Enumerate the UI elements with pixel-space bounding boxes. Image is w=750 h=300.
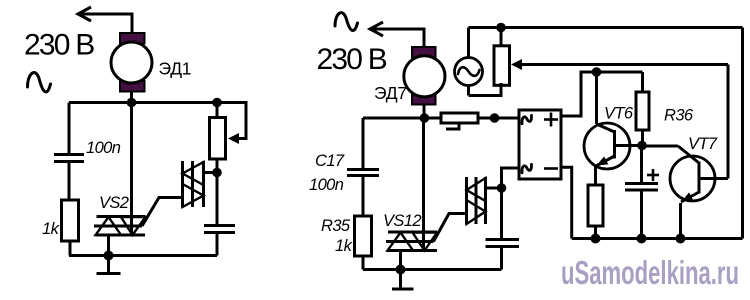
svg-text:VS12: VS12 [383,212,421,230]
svg-text:R36: R36 [664,107,694,125]
svg-text:uSamodelkina.ru: uSamodelkina.ru [561,254,739,291]
svg-text:C17: C17 [315,152,345,170]
svg-text:ЭД1: ЭД1 [159,59,192,79]
svg-text:100n: 100n [309,176,344,194]
svg-text:VT6: VT6 [604,105,634,123]
svg-text:230 В: 230 В [24,29,94,62]
svg-text:1k: 1k [42,220,60,238]
svg-text:1k: 1k [335,237,353,255]
svg-text:VT7: VT7 [688,135,718,153]
svg-text:230 В: 230 В [317,43,387,76]
svg-text:R35: R35 [321,217,351,235]
svg-text:VS2: VS2 [99,194,129,212]
svg-text:100n: 100n [86,139,121,157]
svg-text:ЭД7: ЭД7 [374,83,407,103]
